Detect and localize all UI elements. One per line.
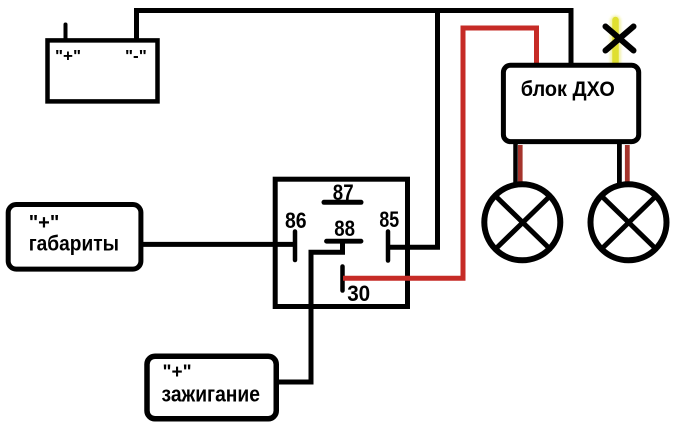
wire DRL to left lamp black (513, 143, 518, 184)
lamp EL1 X stroke 1 (496, 196, 551, 249)
wire габариты to relay pin 86 (140, 242, 295, 247)
wire red pin 30 to DRL block supply (343, 28, 537, 278)
battery B1 positive terminal stub (64, 25, 68, 41)
battery B1 body (48, 40, 158, 101)
wire battery-minus stub to top rail (134, 11, 139, 41)
lamp EL1 X stroke 2 (496, 196, 551, 249)
svg-text:30: 30 (347, 281, 370, 306)
relay pin 88 contact bar (327, 239, 362, 244)
wire top rail down to relay pin 85 (388, 8, 438, 247)
svg-text:85: 85 (379, 207, 399, 232)
wire зажигание to relay pin 88 (277, 239, 343, 382)
svg-text:"+": "+" (163, 362, 192, 383)
DRL module box блок ДХО (503, 65, 638, 141)
lamp EL2 X stroke 1 (602, 196, 657, 249)
node sidelight source box габариты (8, 205, 141, 270)
lamp indicator X stroke 2 (606, 27, 634, 51)
lamp EL1 circle (484, 184, 560, 260)
svg-text:86: 86 (285, 208, 307, 233)
lamp EL2 circle (591, 184, 667, 260)
svg-text:блок ДХО: блок ДХО (521, 78, 615, 101)
wire DRL to right lamp black (617, 143, 622, 184)
relay pin 30 contact bar (340, 267, 345, 291)
svg-text:зажигание: зажигание (162, 382, 261, 407)
wire top rail down to DRL block (569, 8, 574, 67)
wire top rail (134, 8, 571, 13)
lamp EL2 X stroke 2 (602, 196, 657, 249)
lamp indicator yellow glow halo (610, 21, 621, 62)
svg-text:"+": "+" (29, 212, 60, 234)
svg-text:габариты: габариты (29, 233, 119, 256)
relay pin 85 contact bar (386, 232, 391, 261)
lamp indicator X stroke 1 (606, 27, 634, 51)
svg-text:88: 88 (334, 216, 355, 241)
wire DRL to left lamp red (518, 145, 523, 183)
svg-text:"+": "+" (55, 47, 81, 66)
relay K1 body (275, 179, 407, 306)
relay pin 86 contact bar (293, 232, 298, 261)
lamp indicator yellow glow core (612, 20, 619, 62)
relay pin 87 contact bar (324, 200, 361, 205)
node ignition source box зажигание (147, 356, 276, 419)
svg-text:"-": "-" (125, 47, 147, 66)
wire DRL to right lamp red (625, 145, 630, 182)
